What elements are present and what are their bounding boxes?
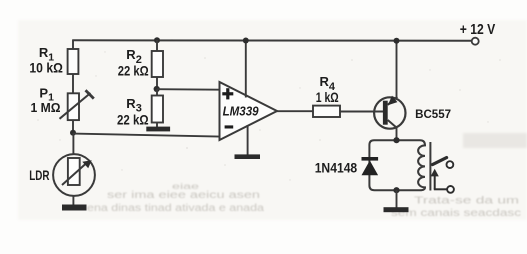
wire node A to minus input <box>73 134 220 137</box>
wire node B to plus input <box>157 88 220 91</box>
junction dot rail-R2 <box>154 37 160 43</box>
label P1 <box>39 85 54 103</box>
wire rail to R2 <box>156 40 158 52</box>
label BC557 <box>415 107 451 121</box>
potentiometer P1 <box>60 90 94 120</box>
label 1 Mohm <box>31 100 61 115</box>
relay core bar <box>429 142 431 191</box>
wire node B to R3 <box>156 89 158 96</box>
+12V supply rail <box>73 39 472 41</box>
svg-text:LM339: LM339 <box>223 104 260 119</box>
svg-text:1 kΩ: 1 kΩ <box>316 89 339 105</box>
relay contact top <box>447 161 454 168</box>
wire R2 to node B <box>156 77 158 90</box>
ground R3 <box>146 127 170 132</box>
LDR <box>53 154 95 196</box>
label 10 kohm <box>29 59 63 75</box>
label 1 kohm <box>316 89 339 105</box>
minus input marker <box>225 125 234 128</box>
wire R4 to base <box>340 111 384 113</box>
svg-text:22 kΩ: 22 kΩ <box>117 111 149 127</box>
label +12V <box>460 21 496 38</box>
svg-text:10 kΩ: 10 kΩ <box>29 59 63 75</box>
resistor R2 <box>152 51 163 77</box>
svg-text:BC557: BC557 <box>415 107 451 121</box>
label 22 kohm R3 <box>117 111 149 127</box>
ground LM339 <box>235 154 261 159</box>
op-amp U1 LM339 <box>220 82 278 140</box>
label LDR <box>29 167 49 183</box>
wire collector to relay <box>396 127 398 141</box>
label R2 <box>126 47 142 66</box>
svg-text:22 kΩ: 22 kΩ <box>118 63 149 79</box>
relay switch blade <box>433 158 447 165</box>
label 22 kohm R2 <box>118 63 149 79</box>
junction dot collector-relay <box>393 137 399 143</box>
+12V terminal <box>472 38 479 45</box>
wire LM339 to ground <box>247 125 249 155</box>
junction dot relay-ground <box>393 187 399 193</box>
transistor Q1 BC557 <box>374 96 405 129</box>
diode D1 1N4148 <box>362 157 379 175</box>
wire arrow elbow to contact <box>434 188 447 190</box>
label R1 <box>39 45 54 63</box>
label R3 <box>126 96 142 115</box>
ground LDR <box>62 205 87 211</box>
svg-text:ena dinas tinad ativada e anad: ena dinas tinad ativada e anada <box>87 203 265 214</box>
ground relay <box>384 207 409 212</box>
plus input marker <box>222 88 233 99</box>
label LM339 <box>223 104 260 119</box>
svg-text:sem canais seacdasc: sem canais seacdasc <box>391 208 521 219</box>
label R4 <box>320 74 336 93</box>
junction dot rail-emitter <box>394 38 400 44</box>
svg-text:Trata-se da um: Trata-se da um <box>414 196 519 207</box>
wire emitter to rail <box>396 40 398 98</box>
wire P1 to node A <box>72 120 74 134</box>
label 1N4148 <box>315 160 358 176</box>
relay K1 coil loop <box>369 140 425 190</box>
wire rail to LM339 V+ <box>245 41 247 98</box>
svg-text:LDR: LDR <box>29 167 49 183</box>
relay contact bottom <box>447 186 454 193</box>
node B junction dot <box>154 86 160 92</box>
wire relay to ground <box>396 190 398 208</box>
resistor R4 <box>313 106 340 117</box>
node A junction dot <box>70 130 76 136</box>
wire node A to LDR <box>72 133 74 155</box>
svg-text:+ 12 V: + 12 V <box>460 21 496 38</box>
svg-text:1N4148: 1N4148 <box>315 160 358 176</box>
wire R3 to ground <box>156 123 158 129</box>
resistor R3 <box>152 96 163 123</box>
wire rail to R1 <box>72 40 74 50</box>
svg-text:ser ima eiee aeicu asen: ser ima eiee aeicu asen <box>107 190 260 201</box>
resistor R1 <box>68 49 79 74</box>
wire LM339 output to R4 <box>276 110 314 112</box>
junction dot rail-LM339 <box>243 38 249 44</box>
relay actuation arrow <box>431 169 439 190</box>
svg-text:1 MΩ: 1 MΩ <box>31 100 61 115</box>
wire LDR to ground <box>72 196 74 206</box>
wire R1 to P1 <box>72 74 74 93</box>
